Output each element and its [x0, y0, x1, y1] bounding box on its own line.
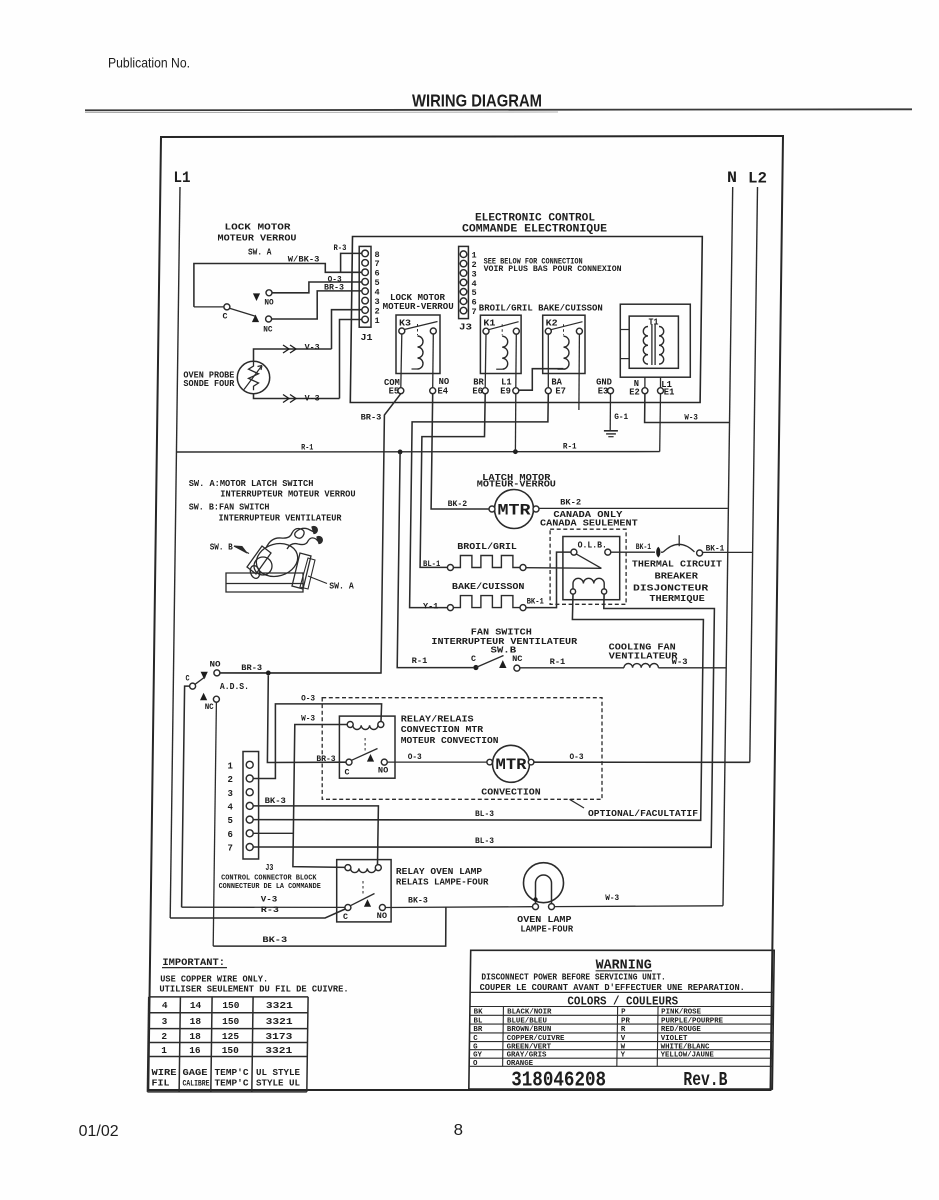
- O.L.B. coil: [570, 589, 575, 594]
- wire R-3 from J1 pin 8 jog: [341, 253, 362, 272]
- svg-text:BK-1: BK-1: [706, 544, 725, 554]
- wire E9 down to R-1 bus: [514, 394, 516, 452]
- oven lamp relay blade: [350, 894, 374, 906]
- connector J3 pin 3: [460, 270, 467, 277]
- svg-text:MTR: MTR: [496, 756, 528, 774]
- svg-text:L2: L2: [748, 170, 767, 188]
- svg-text:3321: 3321: [265, 1045, 292, 1056]
- svg-text:R-3: R-3: [334, 243, 347, 253]
- transformer T1 secondary winding: [659, 327, 664, 365]
- transformer T1 outer-inner link lower: [620, 358, 629, 360]
- relay K2 coil dashed link: [563, 324, 565, 335]
- relay K3 coil: [418, 336, 424, 369]
- svg-text:DISCONNECT POWER BEFORE SERVIC: DISCONNECT POWER BEFORE SERVICING UNIT.: [481, 972, 665, 982]
- wire BK-3 return (A.D.S. NC to lamp circuit): [213, 908, 446, 947]
- svg-text:A.D.S.: A.D.S.: [220, 682, 249, 692]
- svg-text:G: G: [473, 1043, 478, 1051]
- terminal E9 (L1): [513, 388, 519, 394]
- svg-text:BR-3: BR-3: [324, 283, 344, 293]
- wire W/BK-3 from SW.A common loop to J1 pin 6: [194, 264, 362, 307]
- svg-text:01/02: 01/02: [79, 1123, 119, 1140]
- relay K1 NO contact: [513, 328, 519, 334]
- svg-text:W: W: [621, 1043, 626, 1051]
- connector block J3 pin 7: [246, 844, 253, 851]
- svg-text:RELAY OVEN LAMP: RELAY OVEN LAMP: [396, 867, 483, 877]
- svg-text:2: 2: [228, 775, 233, 785]
- svg-text:Y: Y: [621, 1052, 626, 1060]
- svg-text:14: 14: [190, 1000, 202, 1011]
- svg-text:E6: E6: [472, 386, 483, 396]
- svg-text:R-3: R-3: [261, 905, 279, 915]
- oven lamp bulb: [524, 863, 564, 903]
- wire N neutral vertical: [723, 187, 733, 906]
- oven lamp right terminal: [549, 904, 555, 910]
- wire fan switch NC to cooling fan (R-1): [520, 667, 624, 669]
- wire convection relay NO to MTR (O-3): [387, 761, 487, 763]
- O.L.B. right contact: [605, 549, 611, 555]
- svg-text:OVEN LAMP: OVEN LAMP: [517, 915, 572, 925]
- dashed enclosure OPTIONAL/FACULTATIF: [322, 698, 602, 800]
- svg-text:NO: NO: [210, 660, 221, 670]
- svg-text:J1: J1: [361, 333, 374, 343]
- convection relay dashed link: [364, 738, 366, 753]
- svg-text:BROIL/GRIL: BROIL/GRIL: [457, 542, 517, 552]
- svg-text:NO: NO: [378, 766, 388, 776]
- svg-text:VOIR PLUS BAS POUR CONNEXION: VOIR PLUS BAS POUR CONNEXION: [484, 264, 622, 274]
- latch motor assembly pictorial drawing: [226, 527, 322, 592]
- wire L2 supply vertical: [750, 187, 758, 762]
- svg-text:W-3: W-3: [672, 657, 688, 667]
- wire convection motor to L2 (O-3): [534, 761, 750, 763]
- svg-text:150: 150: [222, 1045, 239, 1056]
- svg-text:MOTEUR-VERROU: MOTEUR-VERROU: [383, 302, 454, 312]
- svg-text:7: 7: [228, 844, 233, 854]
- connector J1 pin 3: [362, 297, 369, 304]
- O.L.B. blade: [576, 554, 601, 568]
- svg-text:E9: E9: [500, 386, 511, 396]
- svg-text:YELLOW/JAUNE: YELLOW/JAUNE: [661, 1052, 715, 1060]
- svg-text:BK-1: BK-1: [527, 596, 544, 606]
- svg-text:NC: NC: [512, 654, 522, 664]
- svg-text:BK-3: BK-3: [265, 796, 286, 806]
- broil heating element: [453, 556, 520, 568]
- wire oven lamp relay NO to oven lamp (BK-3): [385, 906, 532, 909]
- convection relay NO triangle: [367, 754, 374, 762]
- svg-text:Y-1: Y-1: [423, 601, 438, 611]
- connector J3 pin 7: [460, 307, 467, 314]
- wire gauge table frame: [149, 996, 308, 998]
- svg-text:8: 8: [454, 1122, 463, 1139]
- wire BR-3 from E5 to A.D.S. NO: [220, 394, 401, 673]
- bake element right terminal: [520, 605, 526, 611]
- connector J1 pin 2: [362, 307, 369, 314]
- wire breaker to L2 (BK-1): [703, 551, 753, 553]
- svg-text:UL STYLE: UL STYLE: [256, 1067, 300, 1078]
- svg-text:FIL: FIL: [152, 1078, 170, 1089]
- relay K1 body: [480, 315, 521, 373]
- thermal breaker right terminal: [697, 550, 703, 556]
- wire T1 to terminal E2: [644, 377, 646, 388]
- fan switch blade: [476, 656, 504, 668]
- svg-text:NO: NO: [439, 377, 450, 387]
- svg-text:T1: T1: [649, 318, 660, 328]
- svg-text:5: 5: [228, 816, 233, 826]
- ground symbol G-1 (from E3): [609, 394, 611, 431]
- oven lamp relay NO contact: [379, 905, 385, 911]
- svg-text:BK-1: BK-1: [636, 542, 651, 552]
- svg-text:R-1: R-1: [412, 656, 428, 666]
- svg-text:E4: E4: [438, 387, 449, 397]
- svg-text:VIOLET: VIOLET: [661, 1035, 688, 1043]
- oven lamp left terminal: [533, 904, 539, 910]
- svg-text:BK-2: BK-2: [560, 497, 581, 507]
- svg-text:NO: NO: [264, 298, 273, 308]
- wire J1 pin 1 to oven probe (V-3 bottom): [340, 320, 363, 399]
- svg-text:Rev.B: Rev.B: [683, 1069, 727, 1091]
- connector J1 body: [359, 246, 371, 327]
- wire O-3 J3 pin 2 to convection relay coil: [253, 704, 382, 779]
- convection motor left terminal: [487, 759, 493, 765]
- transformer T1 outer-inner link upper: [620, 329, 629, 331]
- svg-text:C: C: [343, 912, 348, 922]
- relay K2 common contact: [545, 328, 551, 334]
- cooling fan motor winding: [624, 664, 658, 668]
- svg-text:INTERRUPTEUR VENTILATEUR: INTERRUPTEUR VENTILATEUR: [219, 514, 343, 524]
- svg-text:MOTEUR VERROU: MOTEUR VERROU: [218, 234, 297, 244]
- svg-text:CALIBRE: CALIBRE: [183, 1080, 210, 1089]
- convection relay coil: [353, 725, 378, 729]
- connector J1 pin 6: [362, 269, 369, 276]
- svg-text:1: 1: [228, 761, 234, 771]
- terminal E5 (COM): [398, 388, 404, 394]
- switch SW.A NO terminal: [253, 293, 260, 301]
- svg-text:DISJONCTEUR: DISJONCTEUR: [633, 584, 709, 594]
- latch motor MTR: [495, 490, 534, 529]
- dashed enclosure CANADA ONLY: [550, 529, 626, 604]
- svg-text:J3: J3: [459, 323, 472, 333]
- terminal E4 (NO): [430, 388, 436, 394]
- svg-text:C: C: [223, 312, 228, 322]
- wire R-3 from L1 to oven lamp relay C: [170, 909, 345, 918]
- wire A.D.S. NO junction (BR-3): [220, 672, 381, 674]
- leader to OPTIONAL label: [570, 799, 585, 808]
- svg-text:OPTIONAL/FACULTATIF: OPTIONAL/FACULTATIF: [588, 809, 698, 819]
- svg-text:UTILISER SEULEMENT DU FIL DE C: UTILISER SEULEMENT DU FIL DE CUIVRE.: [159, 985, 348, 995]
- wire latch motor to N (BK-2): [539, 507, 728, 509]
- svg-text:BK-2: BK-2: [448, 499, 468, 509]
- relay K1 coil dashed link: [501, 324, 503, 335]
- svg-text:MOTEUR CONVECTION: MOTEUR CONVECTION: [401, 736, 499, 746]
- fan switch NO triangle: [499, 660, 506, 668]
- relay K3 NO contact: [430, 328, 436, 334]
- svg-text:3: 3: [228, 789, 233, 799]
- wire O.L.B. coil right to J3 pin 7 (BL-3): [253, 594, 714, 847]
- relay K1 coil: [502, 336, 508, 369]
- wire oven lamp to N (W-3): [555, 905, 724, 908]
- svg-text:7: 7: [472, 307, 477, 317]
- relay K2 body: [543, 315, 585, 373]
- wire K3 common to terminal E5: [401, 334, 402, 388]
- connector J1 pin 7: [362, 260, 369, 267]
- svg-text:SW. A:MOTOR LATCH SWITCH: SW. A:MOTOR LATCH SWITCH: [189, 479, 314, 489]
- svg-text:ORANGE: ORANGE: [506, 1060, 533, 1068]
- svg-text:BROWN/BRUN: BROWN/BRUN: [507, 1026, 551, 1034]
- svg-text:16: 16: [189, 1045, 201, 1056]
- svg-text:C: C: [186, 674, 190, 684]
- svg-text:COMMANDE ELECTRONIQUE: COMMANDE ELECTRONIQUE: [462, 224, 607, 236]
- svg-text:C: C: [345, 768, 350, 778]
- transformer T1 primary winding: [643, 327, 648, 365]
- svg-text:USE COPPER WIRE ONLY.: USE COPPER WIRE ONLY.: [160, 974, 268, 984]
- svg-text:K3: K3: [399, 319, 411, 329]
- relay K2 coil: [564, 336, 570, 369]
- svg-text:K2: K2: [546, 319, 558, 329]
- overload breaker O.L.B. body: [563, 537, 620, 600]
- connector block J3 pin 3: [246, 789, 253, 796]
- wire J1 pin 2 to oven probe (V-3 top): [332, 310, 363, 349]
- svg-text:3321: 3321: [266, 1000, 293, 1011]
- wire V-3 top horizontal to probe: [254, 349, 332, 362]
- svg-text:NC: NC: [205, 702, 214, 712]
- wire E7 to bake element (Y-1 feed): [410, 394, 549, 608]
- terminal E7 (BA): [545, 388, 551, 394]
- svg-text:Publication No.: Publication No.: [108, 55, 190, 71]
- svg-text:V-3: V-3: [305, 393, 320, 403]
- svg-text:CONNECTEUR DE LA COMMANDE: CONNECTEUR DE LA COMMANDE: [219, 883, 322, 891]
- colors table header rule: [470, 991, 773, 993]
- svg-text:O.L.B.: O.L.B.: [578, 540, 607, 550]
- wire O.L.B. right contact to breaker (BK-1): [611, 551, 655, 553]
- svg-text:1: 1: [161, 1045, 167, 1056]
- wire V-3 bottom horizontal to probe: [254, 393, 340, 398]
- svg-text:RELAIS LAMPE-FOUR: RELAIS LAMPE-FOUR: [396, 878, 489, 888]
- relay K3 contact blade: [404, 322, 437, 330]
- switch SW.A NC terminal: [252, 315, 259, 323]
- svg-text:NO: NO: [377, 911, 387, 921]
- oven lamp relay dashed link: [362, 881, 364, 896]
- svg-text:RELAY/RELAIS: RELAY/RELAIS: [401, 714, 474, 724]
- wire K3 NO to terminal E4: [432, 334, 435, 388]
- svg-text:K1: K1: [483, 319, 496, 329]
- svg-text:4: 4: [228, 803, 234, 813]
- bake heating element: [453, 596, 520, 608]
- wire R-1 bus to fan switch common: [397, 452, 473, 668]
- diagram outer border frame: [148, 136, 783, 1090]
- terminal E3 (GND): [608, 388, 614, 394]
- svg-text:E7: E7: [555, 386, 566, 396]
- oven lamp relay NO triangle: [364, 899, 371, 907]
- colors table grid: [470, 1006, 774, 1008]
- wire terminal E9 jog to K2 coil: [519, 369, 564, 391]
- svg-text:MTR: MTR: [498, 502, 531, 520]
- svg-text:BROIL/GRIL BAKE/CUISSON: BROIL/GRIL BAKE/CUISSON: [479, 304, 603, 314]
- broil element right terminal: [520, 565, 526, 571]
- wire broil element to O.L.B. blade: [526, 567, 601, 570]
- svg-text:O: O: [473, 1060, 478, 1068]
- connector block J3 pin 5: [246, 816, 253, 823]
- latch motor left terminal: [489, 506, 495, 512]
- wire cooling fan to N (W-3): [658, 667, 726, 669]
- connector J3 pin 6: [460, 298, 467, 305]
- svg-text:THERMIQUE: THERMIQUE: [649, 594, 705, 604]
- svg-text:R-1: R-1: [301, 443, 313, 453]
- svg-text:CONVECTION: CONVECTION: [481, 787, 540, 797]
- svg-text:THERMAL CIRCUIT: THERMAL CIRCUIT: [632, 560, 723, 570]
- oven lamp relay C contact: [345, 905, 351, 911]
- svg-text:MOTEUR-VERROU: MOTEUR-VERROU: [477, 480, 556, 490]
- terminal E2 (N): [642, 388, 648, 394]
- svg-text:LOCK MOTOR: LOCK MOTOR: [225, 222, 292, 232]
- svg-text:BR-3: BR-3: [361, 413, 382, 423]
- svg-text:150: 150: [222, 1016, 239, 1027]
- svg-text:SW. A: SW. A: [248, 247, 272, 257]
- svg-text:4: 4: [162, 1000, 168, 1011]
- wire W-3 pin6 branch: [253, 832, 294, 834]
- svg-text:WIRING DIAGRAM: WIRING DIAGRAM: [412, 91, 542, 111]
- svg-text:E2: E2: [629, 387, 640, 397]
- svg-text:COPPER/CUIVRE: COPPER/CUIVRE: [507, 1035, 565, 1043]
- svg-text:SONDE FOUR: SONDE FOUR: [183, 379, 235, 389]
- svg-text:CANADA SEULEMENT: CANADA SEULEMENT: [540, 519, 638, 529]
- wire E4 to latch motor (BK-2): [431, 394, 489, 509]
- svg-text:C: C: [473, 1035, 478, 1043]
- terminal E6 (BR): [482, 388, 488, 394]
- relay K3 body: [396, 315, 440, 374]
- arrow marks on V-3 top wire: [283, 345, 296, 353]
- oven lamp relay body: [337, 860, 391, 922]
- svg-text:BL-3: BL-3: [475, 836, 494, 846]
- svg-text:BL: BL: [474, 1017, 483, 1025]
- svg-text:N: N: [727, 169, 737, 187]
- svg-text:PR: PR: [621, 1017, 630, 1025]
- connector J3 pin 5: [460, 289, 467, 296]
- svg-text:V-3: V-3: [261, 895, 278, 905]
- warning box frame: [469, 950, 774, 1089]
- electronic control enclosure box: [350, 237, 702, 403]
- svg-text:CONTROL CONNECTOR BLOCK: CONTROL CONNECTOR BLOCK: [221, 874, 317, 882]
- wire E6 to broil element (BL-1 feed): [420, 394, 485, 568]
- wire bake element to O.L.B. left contact: [526, 552, 571, 608]
- svg-text:R-1: R-1: [563, 442, 577, 452]
- connector block J3 pin 2: [246, 775, 253, 782]
- svg-text:TEMP'C: TEMP'C: [215, 1067, 249, 1078]
- svg-text:VENTILATEUR: VENTILATEUR: [609, 651, 679, 661]
- connector block J3 pin 4: [246, 802, 253, 809]
- wire L1 supply vertical: [170, 187, 180, 918]
- junction R-1 bus / E9 feed: [513, 449, 518, 454]
- svg-text:V: V: [621, 1035, 626, 1043]
- fan switch NC terminal: [514, 665, 520, 671]
- convection relay body: [339, 716, 395, 778]
- relay K3 common contact: [399, 328, 405, 334]
- convection relay coil right terminal: [378, 722, 384, 728]
- svg-text:318046208: 318046208: [511, 1070, 606, 1093]
- svg-text:BAKE/CUISSON: BAKE/CUISSON: [452, 582, 525, 592]
- convection relay NO contact: [381, 759, 387, 765]
- connector J3 pin 1: [460, 251, 467, 258]
- svg-text:6: 6: [228, 830, 233, 840]
- svg-text:W-3: W-3: [605, 893, 619, 903]
- switch SW.A common terminal C: [194, 306, 224, 308]
- svg-text:BREAKER: BREAKER: [655, 572, 699, 582]
- svg-text:GY: GY: [473, 1052, 482, 1060]
- wire K2 common to terminal E7: [547, 333, 549, 387]
- svg-text:E5: E5: [389, 387, 400, 397]
- svg-text:SW. A: SW. A: [329, 581, 354, 591]
- svg-text:150: 150: [222, 1000, 239, 1011]
- svg-text:GREEN/VERT: GREEN/VERT: [507, 1043, 552, 1051]
- convection relay blade: [352, 749, 378, 761]
- svg-text:PURPLE/POURPRE: PURPLE/POURPRE: [661, 1017, 724, 1025]
- convection motor right terminal: [528, 759, 534, 765]
- A.D.S. blade: [195, 677, 205, 685]
- svg-text:C: C: [471, 654, 476, 664]
- svg-text:BR-3: BR-3: [316, 754, 335, 764]
- wire R-1 main bus: [176, 451, 659, 453]
- relay K1 contact blade: [489, 322, 519, 330]
- thermal circuit breaker element: [657, 547, 660, 557]
- connector J1 pin 1: [362, 316, 369, 323]
- connector block J3 pin 1: [246, 761, 253, 768]
- svg-text:R-1: R-1: [550, 657, 566, 667]
- svg-text:BR-3: BR-3: [241, 663, 262, 673]
- convection motor MTR: [493, 745, 530, 782]
- wire A.D.S. NC down to BK-3 return: [213, 702, 216, 946]
- svg-text:STYLE UL: STYLE UL: [256, 1078, 300, 1089]
- svg-text:SW. B:FAN SWITCH: SW. B:FAN SWITCH: [189, 503, 270, 513]
- wire K1 common to terminal E6: [484, 334, 487, 387]
- oven lamp relay coil left terminal: [345, 865, 351, 871]
- wire E2 to N (W-3): [645, 394, 730, 423]
- svg-text:3173: 3173: [265, 1031, 292, 1042]
- svg-text:V-3: V-3: [305, 342, 320, 352]
- svg-text:BL-3: BL-3: [475, 809, 494, 819]
- svg-text:TEMP'C: TEMP'C: [215, 1078, 249, 1089]
- connector J1 pin 4: [362, 288, 369, 295]
- wire BK-3 J3 pin 4 to oven lamp relay coil: [253, 806, 378, 865]
- svg-text:GRAY/GRIS: GRAY/GRIS: [507, 1052, 547, 1060]
- svg-text:COUPER LE COURANT AVANT D'EFFE: COUPER LE COURANT AVANT D'EFFECTUER UNE …: [480, 983, 745, 993]
- svg-text:WHITE/BLANC: WHITE/BLANC: [661, 1043, 710, 1051]
- svg-text:GAGE: GAGE: [183, 1067, 208, 1078]
- svg-text:125: 125: [222, 1031, 239, 1042]
- svg-text:P: P: [621, 1009, 626, 1017]
- svg-text:BK-3: BK-3: [408, 896, 428, 906]
- transformer T1 outer loop: [620, 304, 690, 377]
- wire SW.A NO to J1 pin 5 (O-3): [272, 282, 362, 293]
- svg-text:O-3: O-3: [570, 752, 584, 762]
- oven lamp junction dot: [533, 897, 537, 901]
- svg-text:G-1: G-1: [614, 412, 628, 422]
- svg-text:BK-3: BK-3: [262, 935, 287, 945]
- svg-text:BL-1: BL-1: [423, 559, 440, 569]
- svg-text:E3: E3: [598, 386, 609, 396]
- relay K2 contact blade: [551, 322, 583, 330]
- svg-text:O-3: O-3: [301, 694, 315, 704]
- svg-text:W-3: W-3: [301, 714, 315, 724]
- svg-text:L1: L1: [174, 169, 191, 187]
- switch SW.A blade: [230, 308, 256, 316]
- svg-text:BK: BK: [474, 1009, 483, 1017]
- svg-text:O-3: O-3: [408, 752, 422, 762]
- svg-text:INTERRUPTEUR MOTEUR VERROU: INTERRUPTEUR MOTEUR VERROU: [220, 490, 355, 500]
- wire A.D.S. C down to V-3 node: [182, 686, 190, 907]
- connector J3 body: [459, 246, 469, 318]
- relay K2 NO contact: [576, 328, 582, 334]
- svg-text:NC: NC: [263, 324, 272, 334]
- svg-text:SW. B: SW. B: [210, 543, 234, 553]
- convection relay C contact: [346, 759, 352, 765]
